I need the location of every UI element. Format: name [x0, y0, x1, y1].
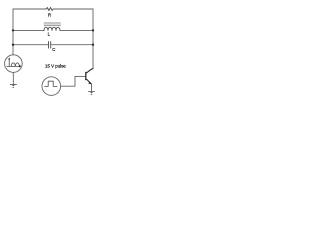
source V1 axis arrowhead	[8, 57, 10, 59]
wire capacitor branch right	[51, 44, 93, 46]
wire emitter to ground	[91, 84, 93, 91]
resistor R	[46, 8, 53, 11]
wire inductor branch left	[13, 29, 44, 31]
ground left tick	[13, 87, 15, 89]
wire left vertical	[12, 9, 14, 55]
ground right tick	[91, 94, 93, 96]
svg-text:C: C	[52, 47, 55, 52]
ground left arrow	[12, 85, 15, 87]
wire top-left to resistor	[13, 8, 46, 10]
transistor Q1 collector lead	[87, 69, 93, 73]
ground right arrow	[90, 92, 93, 94]
wire pulse source to transistor base	[61, 76, 86, 86]
capacitor C plates	[49, 42, 51, 49]
inductor L core lines	[44, 23, 61, 25]
source V1 waveform dot	[19, 65, 21, 67]
inductor L coil	[44, 27, 60, 30]
junction node right-C	[92, 44, 94, 46]
wire inductor branch right	[60, 29, 93, 31]
svg-text:R: R	[48, 13, 51, 18]
source V1 waveform axis	[7, 59, 21, 66]
transistor Q1 base bar	[85, 72, 87, 80]
wire capacitor branch left	[13, 44, 48, 46]
junction node right-L	[92, 29, 94, 31]
wire source V1 to ground	[12, 72, 14, 84]
svg-text:L: L	[48, 31, 51, 36]
ground right bar	[88, 91, 94, 93]
svg-text:15 V pulse: 15 V pulse	[45, 64, 66, 69]
junction node left-C	[12, 44, 14, 46]
junction node left-L	[12, 29, 14, 31]
wire resistor to top-right	[53, 8, 93, 10]
transistor Q1 emitter arrowhead	[88, 82, 91, 85]
pulse source V2 circle	[42, 77, 61, 96]
source V1 waveform humps	[11, 63, 19, 66]
wire right vertical	[92, 9, 94, 69]
source V1 circle	[5, 55, 23, 73]
transistor Q1 emitter lead	[87, 79, 92, 84]
pulse source V2 waveform	[45, 81, 58, 86]
ground left bar	[10, 83, 16, 85]
